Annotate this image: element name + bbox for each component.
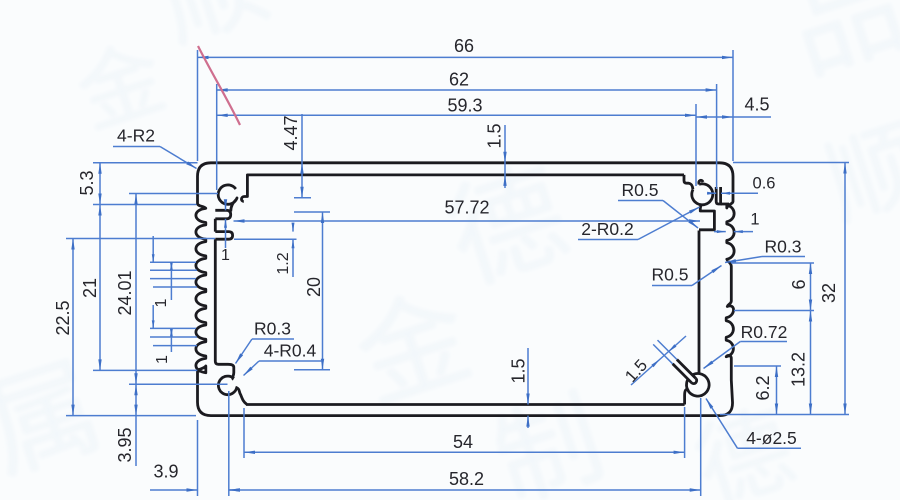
svg-text:R0.3: R0.3 [254,319,291,339]
extension line 54 right [684,407,686,458]
label 4-o2.5 screw holes [706,399,801,449]
extension line 66/32 right [732,50,734,161]
aluminum profile outer contour with heatsink fins [196,163,734,416]
svg-text:R0.72: R0.72 [741,322,788,342]
label 2-R0.2 [578,207,700,240]
2-R0.2 hook [699,180,703,184]
dimension 20 cavity height [304,212,324,370]
dimension 62 [217,69,717,91]
label 4-R0.4 [244,341,323,376]
svg-text:1: 1 [153,298,170,307]
bottom-right corner cavity step [685,389,689,404]
extension line 6 top [731,262,814,264]
svg-text:0.6: 0.6 [753,174,776,192]
dimension 22.5 [53,239,75,416]
extension line rails 238.5 [66,238,215,240]
svg-text:4.47: 4.47 [281,115,301,150]
dimension 32 overall height [819,163,847,415]
dimension 21 [80,205,102,371]
dimension 13.2 [788,311,812,415]
extension line boss center top 193.5 [129,193,218,195]
svg-text:2-R0.2: 2-R0.2 [581,219,634,239]
svg-text:1.5: 1.5 [508,358,528,383]
dimension 57.72 inner width [234,197,701,222]
extension line 20 top [294,211,330,213]
label R0.72 [704,322,788,368]
svg-text:R0.5: R0.5 [622,180,659,200]
extension line 54 left [243,408,245,458]
dimension 1 scallop depth [714,210,760,233]
svg-text:R0.3: R0.3 [765,237,802,257]
right wall lid groove step [699,204,714,230]
dimension 1.5 slot width [621,336,686,386]
svg-text:R0.5: R0.5 [652,265,689,285]
svg-text:13.2: 13.2 [788,352,808,387]
extension line 59.3/4.5 [695,104,697,186]
svg-text:59.3: 59.3 [447,95,482,115]
extension line fin start 204.5 [93,204,197,206]
svg-text:4-R0.4: 4-R0.4 [264,341,317,361]
dimension 24.01 [115,194,138,385]
extension line bottom 415.6 [66,415,196,417]
dimension 59.3 [217,95,696,117]
label R0.3 right scallop [725,237,805,263]
top-left screw boss C-channel [218,185,237,212]
pink scan mark [198,46,240,125]
svg-text:1: 1 [750,210,759,228]
extension line 6/13.2 [734,310,814,312]
label R0.5 top right [618,180,698,228]
dimension 0.6 [707,174,775,194]
dimension 1 rail thickness [221,199,230,264]
svg-text:66: 66 [454,36,474,56]
dimension 66 overall width [198,36,734,59]
label R0.3 left notch [236,319,295,364]
svg-text:24.01: 24.01 [115,270,135,315]
svg-text:6: 6 [789,279,809,289]
dimension 3.9 [150,461,240,491]
svg-text:62: 62 [449,69,469,89]
right wall inner face [698,231,701,373]
svg-text:4.5: 4.5 [744,94,769,114]
dimension 1.5 top wall [484,123,506,188]
dimension 6 [789,263,812,311]
dimension 54 [244,432,685,454]
dimension 5.3 [77,163,102,205]
extension line 6.2 top [734,365,781,367]
bottom-left screw boss C-channel (4-R0.4) [218,376,246,404]
left wall inner face and R0.3 notch [215,219,234,379]
extension line fin end 370.4 [93,369,197,371]
dimension 1 fin pitch upper [150,236,197,307]
dimension 6.2 [753,366,778,415]
extension line 62 right [716,84,718,189]
extension line corner x bottom [197,420,199,496]
extension line right boss center x [700,398,702,496]
svg-text:3.95: 3.95 [115,427,135,462]
dimension 4.5 [696,94,771,118]
extension line 62/59.3 left [216,84,218,190]
label R0.5 right wall [652,265,722,286]
0.6 slot at top-right corner [716,187,729,204]
dimension 1.2 rail slot [234,223,297,277]
svg-text:6.2: 6.2 [753,375,773,400]
svg-text:32: 32 [819,283,839,303]
svg-text:54: 54 [453,432,473,452]
dimension 1.5 bottom wall [508,348,529,428]
label 4-R2 corner radius [113,126,197,169]
extension line top-left 162.5 [93,162,198,164]
svg-text:1: 1 [221,247,230,264]
extension line bottom right 414.5 [720,414,849,416]
dimension 1 fin pitch lower [150,305,197,364]
svg-text:21: 21 [80,278,100,298]
extension line 32 top [733,162,849,164]
left PCB rail upper [215,210,230,219]
svg-text:1: 1 [154,355,171,364]
svg-text:58.2: 58.2 [449,469,484,489]
bottom-right screw boss circle (4-o2.5) [687,374,710,397]
svg-text:20: 20 [304,277,324,297]
svg-text:1.5: 1.5 [484,123,504,148]
dimension 3.95 [115,384,138,466]
left PCB rail lower [215,232,232,240]
svg-text:3.9: 3.9 [153,461,178,481]
svg-text:4-ø2.5: 4-ø2.5 [746,428,797,448]
extension line boss center x 228.8 [228,391,230,496]
diagonal saw slot 1.5 wide [673,360,697,384]
dimension 58.2 [229,469,701,492]
svg-text:4-R2: 4-R2 [117,126,155,146]
extension line 66 left [197,50,199,161]
bottom wall inner surface [246,403,685,406]
extension line 4.47 bottom [294,197,311,199]
top-right screw boss C-channel (R0.5 / 2-R0.2) [692,184,713,205]
top wall inner surface and left lid step [241,175,684,201]
dimension 4.47 [281,114,304,198]
top-right lid step [684,175,693,189]
extension line 20 bottom [294,369,330,371]
svg-text:22.5: 22.5 [53,300,73,335]
extension line boss centers 384.2 [129,383,228,385]
svg-text:5.3: 5.3 [77,170,97,195]
svg-text:57.72: 57.72 [444,197,489,217]
svg-text:1.2: 1.2 [275,252,292,274]
